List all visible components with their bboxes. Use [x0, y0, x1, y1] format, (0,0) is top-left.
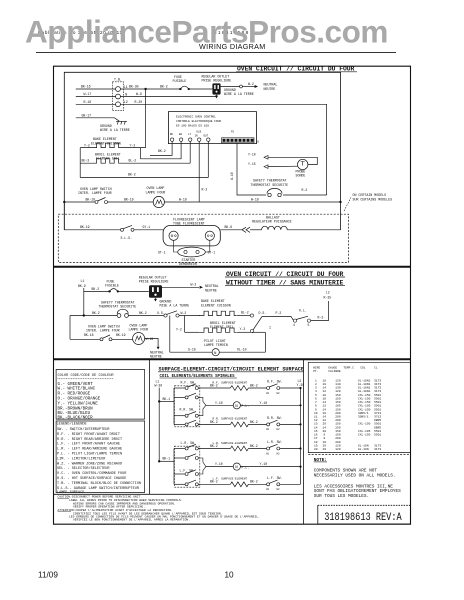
svg-text:TUBE FLUORESCENT: TUBE FLUORESCENT [173, 222, 205, 226]
svg-text:DLB: DLB [197, 131, 202, 134]
svg-text:ST-1: ST-1 [208, 250, 216, 254]
switch R.R. pole A [174, 412, 198, 418]
switch O.L. [293, 308, 311, 327]
wire W-2 neutral s2 [162, 282, 219, 292]
svg-text:W-2: W-2 [191, 282, 197, 286]
electronic oven control U1 [168, 112, 256, 144]
svg-text:L7: L7 [188, 133, 192, 136]
svg-text:BK-16: BK-16 [81, 85, 91, 89]
svg-text:BL-2: BL-2 [129, 159, 137, 163]
wire BK-2 mid [128, 311, 163, 316]
wire L1 down [83, 288, 85, 316]
svg-text:ELEMENT CUISSON: ELEMENT CUISSON [201, 303, 231, 307]
svg-text:R.- RED/ROUGE: R.- RED/ROUGE [58, 392, 91, 397]
switch R.F. pole A [174, 384, 198, 390]
thick divider section1/section2 [54, 266, 411, 268]
svg-text:NEUTRE: NEUTRE [150, 354, 162, 358]
svg-text:BK-2: BK-2 [250, 420, 258, 424]
svg-text:N: N [125, 92, 127, 96]
fluorescent lamp TUBE FLUORESCENT [163, 218, 220, 246]
svg-text:BA: BA [179, 133, 183, 136]
svg-text:W-19: W-19 [179, 197, 187, 201]
probe SONDE [296, 159, 308, 177]
node L2 surface [297, 379, 305, 387]
svg-text:OVEN CIRCUIT // CIRCUIT DU FOU: OVEN CIRCUIT // CIRCUIT DU FOUR [237, 66, 355, 73]
node L2 s2 [324, 290, 332, 299]
svg-text:L2: L2 [124, 100, 128, 104]
wire EOC pin2 jog [141, 141, 182, 159]
switch O.S. [157, 311, 186, 317]
svg-text:ELECTRONIC OVEN CONTROL: ELECTRONIC OVEN CONTROL [176, 116, 216, 119]
starter DEMARREUR [158, 247, 215, 266]
svg-text:LAMPE-SURFACE: LAMPE-SURFACE [57, 491, 84, 495]
svg-text:BK-2: BK-2 [250, 480, 258, 484]
svg-text:L.F. SURFACE-ELEMENT: L.F. SURFACE-ELEMENT [213, 478, 248, 481]
wire pilot row 2 [206, 462, 233, 467]
page border [54, 66, 411, 524]
svg-text:INTER. LAMPE FOUR: INTER. LAMPE FOUR [78, 191, 112, 195]
wire main row BK-2 [70, 311, 117, 316]
svg-text:Y-30: Y-30 [297, 383, 305, 387]
svg-text:W-2: W-2 [181, 311, 187, 315]
right column divider [303, 359, 305, 524]
R.F. surface element [213, 381, 267, 390]
oven lamp s2 label [129, 323, 149, 331]
svg-text:BK-19: BK-19 [124, 197, 134, 201]
svg-text:LAMPE TEMOIN: LAMPE TEMOIN [204, 343, 228, 347]
svg-text:R.R. - RIGHT REAR/ARRIERE DROI: R.R. - RIGHT REAR/ARRIERE DROIT [57, 437, 122, 442]
svg-text:INTER. LAMPE FOUR: INTER. LAMPE FOUR [86, 329, 120, 333]
regular outlet s2 [139, 276, 169, 298]
oven lamp switch INTER. LAMPE FOUR [78, 187, 112, 195]
wire P-2 [262, 311, 293, 320]
svg-text:181814121818141214181412201420: 18181412181814121418141220142088102010 [323, 379, 327, 451]
svg-text:Y-2: Y-2 [240, 327, 246, 331]
svg-text:R.F. SW.: R.F. SW. [181, 380, 196, 384]
wire R.F. element row [198, 383, 230, 388]
legend column divider [149, 359, 151, 494]
safety thermostat THERMOSTAT SECURITE [251, 179, 289, 197]
wire R-2 EOC pin4 down to lamp row [199, 141, 207, 202]
wire table header [313, 366, 378, 372]
svg-text:BK-2: BK-2 [139, 311, 147, 315]
svg-text:J1: J1 [256, 141, 260, 144]
svg-text:CALIBRE: CALIBRE [328, 370, 341, 373]
wire BK-1 bus to group 1 [159, 388, 174, 424]
wire R.R. element row [198, 420, 230, 425]
svg-text:BK-1: BK-1 [163, 457, 171, 461]
switch L.F. pole B [174, 480, 198, 486]
node junction right lamp row [339, 201, 341, 203]
section 1 box [64, 72, 340, 230]
svg-text:W.Z. - WARMER ZONE/ZONE RECHAU: W.Z. - WARMER ZONE/ZONE RECHAUD [57, 461, 122, 466]
svg-text:O.- ORANGE/ORANGE: O.- ORANGE/ORANGE [58, 397, 101, 402]
svg-text:Y-15: Y-15 [248, 162, 256, 166]
wire Y-15 probe arrow [248, 162, 298, 168]
svg-text:O.L.: O.L. [299, 308, 307, 312]
wire W-2 neutral arrow [221, 82, 258, 88]
svg-text:R-35: R-35 [324, 296, 332, 300]
wire pilot row 1 [206, 401, 233, 406]
svg-text:SEL. - SELECTOR/SELECTEUR: SEL. - SELECTOR/SELECTEUR [57, 466, 110, 471]
svg-text:Y-2: Y-2 [84, 143, 90, 147]
wire BK-30 from L1 [120, 85, 181, 89]
svg-text:PRISE REGULIERE: PRISE REGULIERE [139, 280, 169, 284]
wire table box [308, 362, 410, 452]
svg-text:L.R. - LEFT REAR/ARRIERE GAUCH: L.R. - LEFT REAR/ARRIERE GAUCHE [57, 447, 122, 452]
svg-text:BK-19: BK-19 [80, 225, 90, 229]
wire BK-2 to fuse s2 [84, 287, 111, 291]
wire lamp row s2 [70, 316, 100, 340]
wire W-9 from N [120, 92, 216, 96]
svg-text:SUR TOUS LES MODELES.: SUR TOUS LES MODELES. [314, 494, 369, 499]
wire L1 branch down to bake row [145, 89, 147, 148]
svg-text:Y-10: Y-10 [215, 462, 223, 466]
oven lamp LAMPE FOUR label [146, 186, 166, 194]
node junction on L1 wire [144, 88, 146, 90]
svg-text:H1: H1 [266, 392, 270, 395]
svg-text:P.L.: P.L. [242, 465, 250, 469]
svg-text:R.R. SW.: R.R. SW. [180, 408, 195, 412]
wire Y-2 left broil drop [176, 316, 185, 333]
svg-text:Y.- YELLOW/JAUNE: Y.- YELLOW/JAUNE [58, 401, 99, 406]
svg-text:R-20: R-20 [135, 100, 143, 104]
EOC pin labels [170, 131, 235, 138]
svg-text:LEGEND/LEGENDE: LEGEND/LEGENDE [57, 422, 87, 427]
color code box [56, 370, 145, 421]
svg-text:BK-2: BK-2 [158, 149, 166, 153]
wire BK-19 s2 [112, 333, 133, 339]
NOTE heading [314, 458, 327, 463]
svg-text:SONDE: SONDE [296, 173, 306, 177]
svg-text:BK-30: BK-30 [129, 85, 139, 89]
header rule [36, 52, 396, 54]
node junction L1 main row [83, 314, 85, 316]
svg-text:NEUTRAL: NEUTRAL [264, 83, 278, 87]
wire BK-6 [220, 225, 242, 230]
wire L.R. element row [198, 444, 230, 449]
svg-text:W-2: W-2 [248, 82, 254, 86]
svg-text:COL: COL [360, 366, 366, 369]
wire W-10 from J1 down [230, 143, 266, 195]
node bus tap 2 [158, 460, 160, 462]
svg-text:L.R. SURFACE-ELEMENT: L.R. SURFACE-ELEMENT [213, 442, 248, 445]
svg-text:H2: H2 [277, 392, 281, 395]
svg-text:D.S.: D.S. [259, 311, 267, 315]
svg-text:CONTROLE ELECTRONIQUE FOUR: CONTROLE ELECTRONIQUE FOUR [176, 120, 221, 123]
svg-text:L.R. SW.: L.R. SW. [181, 441, 196, 445]
wire W-19 down to neutral [145, 337, 164, 358]
svg-text:R.R. SW.: R.R. SW. [267, 416, 282, 420]
wire Y-10 probe arrow [248, 153, 317, 165]
svg-text:L.R. SW.: L.R. SW. [267, 440, 282, 444]
svg-text:H2: H2 [277, 452, 281, 455]
node junction left lamp row [63, 201, 65, 203]
svg-text:W-9: W-9 [136, 92, 142, 96]
fuse FUSIBLE s2 [105, 279, 119, 292]
switch S.L.S. [121, 225, 135, 240]
svg-text:W-10: W-10 [230, 172, 234, 180]
svg-text:WIRE A LA TERRE: WIRE A LA TERRE [224, 92, 254, 96]
svg-text:L.F. SW.: L.F. SW. [267, 476, 282, 480]
outlet ground arrow down [215, 95, 218, 99]
switch R.R. right pole [266, 416, 302, 431]
EOC terminal pins [170, 138, 210, 141]
note box dashed top [308, 454, 410, 456]
svg-text:P2: P2 [231, 131, 235, 134]
svg-text:BU-3: BU-3 [82, 159, 90, 163]
svg-text:REGULATEUR PUISSANCE: REGULATEUR PUISSANCE [252, 220, 292, 224]
wire EOC pin3 to broil [189, 141, 191, 163]
svg-text:IN: IN [195, 135, 199, 138]
svg-text:S-10: S-10 [188, 348, 196, 352]
svg-text:BR.-BROWN/BRUN: BR.-BROWN/BRUN [58, 406, 94, 411]
svg-text:O.C. - OVEN CONTROL/COMMANDE F: O.C. - OVEN CONTROL/COMMANDE FOUR [57, 471, 127, 476]
svg-text:H2: H2 [277, 428, 281, 431]
switch L.R. pole A [174, 444, 198, 450]
svg-text:OL-10: OL-10 [237, 348, 247, 352]
svg-text:BK-2: BK-2 [92, 287, 100, 291]
L.F. surface element [213, 478, 267, 487]
svg-text:ELEMENT GRIL: ELEMENT GRIL [210, 325, 234, 329]
switch L.R. pole B [174, 454, 198, 460]
switch group R.F./R.R. dashed box [174, 380, 199, 426]
svg-text:BK-18: BK-18 [84, 333, 94, 337]
svg-text:R-18: R-18 [84, 100, 92, 104]
svg-text:P-2: P-2 [276, 311, 282, 315]
svg-text:WIRING DIAGRAM: WIRING DIAGRAM [199, 42, 266, 51]
svg-text:W-19: W-19 [146, 337, 154, 341]
L.R. surface element [213, 442, 267, 451]
svg-text:R.F. SURFACE-ELEMENT: R.F. SURFACE-ELEMENT [213, 381, 248, 384]
note text english [314, 469, 396, 479]
switch R.F. pole B [174, 393, 198, 399]
svg-text:L1: L1 [124, 85, 128, 89]
left bus L1 wire [158, 388, 160, 462]
safety thermostat s2 [99, 300, 137, 308]
svg-text:Y-10: Y-10 [215, 401, 223, 405]
outlet ground label [224, 88, 254, 96]
wire BK-2 long row [80, 141, 208, 177]
wire R-3 to L2 [311, 301, 329, 321]
svg-text:R-3: R-3 [318, 316, 324, 320]
wire W-17 to N [76, 92, 116, 96]
svg-text:LAMPE FOUR: LAMPE FOUR [129, 328, 149, 332]
R.R. surface element [213, 418, 267, 427]
svg-text:L.F. SW.: L.F. SW. [180, 469, 195, 473]
oven lamp switch contacts [95, 198, 108, 204]
arrows to ballast [242, 227, 250, 232]
group 2 common rail [198, 458, 206, 474]
svg-text:R.F. - RIGHT FRONT/AVANT DROIT: R.F. - RIGHT FRONT/AVANT DROIT [57, 432, 120, 437]
oven lamp symbol [153, 196, 164, 207]
svg-text:ST-1: ST-1 [158, 250, 166, 254]
svg-text:5: 5 [308, 323, 310, 327]
svg-text:THERMOSTAT SECURITE: THERMOSTAT SECURITE [99, 305, 137, 309]
svg-text:BU.-BLUE/BLEU: BU.-BLUE/BLEU [58, 411, 91, 416]
svg-text:H.S. - HOT SURFACE/SURFACE CHA: H.S. - HOT SURFACE/SURFACE CHAUDE [57, 476, 126, 481]
thermostat contacts s2 [117, 309, 128, 317]
svg-text:T.B.: T.B. [114, 78, 122, 82]
fuse FUSE FUSIBLE [173, 75, 190, 90]
svg-text:BK-19: BK-19 [116, 333, 126, 337]
svg-text:GN-17: GN-17 [82, 113, 92, 117]
svg-text:W-17: W-17 [84, 92, 92, 96]
svg-text:BK-2: BK-2 [250, 444, 258, 448]
svg-text:P.L. - PILOT LIGHT/LAMPE TEMOI: P.L. - PILOT LIGHT/LAMPE TEMOIN [57, 452, 122, 457]
wire starter leads [174, 240, 178, 252]
svg-text:SUR CERTAINS MODELES: SUR CERTAINS MODELES [353, 197, 393, 201]
node L1 surface [155, 380, 163, 388]
wire oven lamp row [64, 197, 340, 202]
svg-text:PT.: PT. [313, 370, 319, 373]
legend key box [56, 421, 145, 495]
ground symbol [100, 121, 130, 132]
svg-text:GY-1: GY-1 [143, 225, 151, 229]
wire table column pt [314, 379, 381, 451]
svg-text:LIM. - LIMITOR/LIMITEUR: LIM. - LIMITOR/LIMITEUR [57, 456, 106, 461]
svg-text:SW. - SWITCH/INTERRUPTEUR: SW. - SWITCH/INTERRUPTEUR [57, 427, 110, 432]
thick divider section2/section3 [54, 358, 411, 360]
revision box 318198613 REV:A [318, 505, 411, 524]
svg-text:BK-2: BK-2 [128, 173, 136, 177]
section 3 title SURFACE-ELEMENT-CIRCUIT [158, 367, 304, 379]
svg-text:O.S.: O.S. [157, 311, 165, 315]
svg-text:BK.-BLACK/NOIR: BK.-BLACK/NOIR [58, 416, 94, 421]
broil element ELEMENT GRIL [80, 152, 190, 163]
switch R.R. pole B [174, 420, 198, 426]
ground arrow s2 [154, 298, 189, 308]
svg-text:BK-2: BK-2 [250, 383, 258, 387]
svg-text:BK-1: BK-1 [163, 397, 171, 401]
note text french [314, 484, 401, 499]
svg-text:R-2: R-2 [302, 188, 308, 192]
svg-text:ES 100 BA(ES ES 100: ES 100 BA(ES ES 100 [176, 123, 209, 127]
wire to bake s2 [179, 315, 200, 317]
svg-text:OUT: OUT [204, 135, 209, 138]
svg-text:ATTENTION:COUPEZ L'ALIMENTATIO: ATTENTION:COUPEZ L'ALIMENTATION AVANT D'… [58, 508, 173, 512]
svg-text:NEUTRE: NEUTRE [205, 288, 217, 292]
svg-text:G.- GREEN/VERT: G.- GREEN/VERT [58, 382, 94, 387]
svg-text:S.L.S.- GARAGE LAMP SWITCH/INT: S.L.S.- GARAGE LAMP SWITCH/INTERRUPTEUR [57, 486, 140, 491]
svg-text:11/09: 11/09 [38, 571, 58, 580]
svg-text:W-19: W-19 [251, 197, 259, 201]
svg-text:WIRE A LA TERRE: WIRE A LA TERRE [100, 128, 130, 132]
svg-text:Y-2: Y-2 [176, 327, 182, 331]
svg-text:NECESSARILY USED ON ALL MODELS: NECESSARILY USED ON ALL MODELS. [314, 474, 396, 479]
switch L.F. pole A [174, 470, 198, 476]
node bus tap 1 [158, 400, 160, 402]
svg-text:Y-10: Y-10 [260, 401, 268, 405]
connector J1 strip [222, 138, 260, 144]
svg-text:T.B. - TERMINAL BLOCK/BLOC DE: T.B. - TERMINAL BLOCK/BLOC DE CONNECTION [57, 481, 141, 486]
svg-text:10: 10 [225, 571, 235, 580]
svg-text:TEMP.C: TEMP.C [343, 366, 354, 369]
svg-text:NEUTRE: NEUTRE [264, 87, 276, 91]
dashed box certain models fluorescent [58, 214, 348, 262]
wire R-20 from L2 to right side [120, 100, 326, 195]
oven lamp symbol s2 [133, 333, 145, 345]
wire L.F. element row [198, 480, 230, 485]
svg-text:FUSIBLE: FUSIBLE [173, 79, 187, 83]
wire BK-1 bus to group 2 [159, 449, 174, 485]
pilot light LAMPE TEMOIN [170, 316, 266, 356]
svg-text:R.F. SW.: R.F. SW. [267, 380, 282, 384]
svg-text:Y-10: Y-10 [260, 462, 268, 466]
oven lamp switch s2 labels [86, 324, 120, 332]
wire fuse to outlet [189, 88, 213, 90]
broil element s2 [185, 321, 251, 332]
svg-text:BK-2: BK-2 [92, 311, 100, 315]
wire GY-1 [134, 225, 163, 230]
right bus L2 wire [300, 387, 302, 484]
terminal block T.B. [112, 78, 127, 111]
caution notes [58, 496, 261, 522]
svg-text:MISE A LA TERRE: MISE A LA TERRE [160, 304, 190, 308]
svg-text:LAMPE FOUR: LAMPE FOUR [146, 190, 166, 194]
svg-text:L.F. - LEFT FRONT/AVANT GAUCHE: L.F. - LEFT FRONT/AVANT GAUCHE [57, 442, 120, 447]
lamp switch contacts s2 [100, 335, 112, 341]
left rail wire [79, 148, 81, 178]
wire GN-17 ground wire [76, 113, 120, 121]
wire BK-19 fluorescent feed [64, 202, 120, 230]
svg-text:BK-9: BK-9 [78, 284, 86, 288]
switch L.F. right pole [266, 476, 301, 491]
node NEUTRAL NEUTRE [264, 83, 278, 91]
svg-text:H2: H2 [277, 488, 281, 491]
svg-text:BK-2: BK-2 [160, 85, 168, 89]
svg-text:P.L.: P.L. [242, 404, 250, 408]
wire bake to DS [236, 315, 250, 317]
svg-text:CL: CL [374, 366, 378, 369]
wire BK-16 to L1 [76, 85, 116, 89]
bake element s2 [199, 299, 249, 315]
pilot light P.L. 1 [233, 401, 301, 409]
svg-text:R.R. SURFACE-ELEMENT: R.R. SURFACE-ELEMENT [213, 418, 248, 421]
svg-text:VERIFIEZ LE BON FONCTIONNEMENT: VERIFIEZ LE BON FONCTIONNEMENT DE L'APPA… [73, 518, 190, 522]
switch L.R. right pole [266, 440, 302, 455]
switch group L.R./L.F. dashed box [174, 441, 199, 487]
svg-text:L2: L2 [326, 290, 330, 294]
group 1 common rail [198, 397, 206, 415]
pilot light P.L. 2 [233, 462, 301, 470]
svg-text:L1: L1 [81, 279, 85, 283]
svg-text:BK-6: BK-6 [225, 225, 233, 229]
node L1 [78, 279, 86, 288]
svg-text:S.L.S.: S.L.S. [121, 236, 133, 240]
svg-text:BL-2: BL-2 [241, 310, 249, 314]
regular outlet PRISE REGULIERE [202, 74, 232, 94]
svg-text:ON CERTAIN MODELS: ON CERTAIN MODELS [353, 193, 387, 197]
svg-text:BK: BK [170, 133, 174, 136]
svg-text:H1: H1 [266, 488, 270, 491]
on certain models note [344, 193, 392, 211]
svg-text:FUSIBLE: FUSIBLE [105, 283, 119, 287]
svg-text:1: 1 [269, 325, 271, 329]
svg-text:H1: H1 [266, 428, 270, 431]
bake element ELEMENT CUISSON [80, 137, 145, 147]
notes top border [54, 493, 304, 495]
svg-text:W.- WHITE/BLANC: W.- WHITE/BLANC [58, 387, 96, 392]
svg-text:DEMARREUR: DEMARREUR [179, 262, 197, 266]
svg-text:120140130120150150150105150200: 1201401301201501501501051502002002001502… [335, 379, 341, 451]
svg-text:THERMOSTAT SECURITE: THERMOSTAT SECURITE [251, 183, 289, 187]
svg-text:PRISE REGULIERE: PRISE REGULIERE [202, 78, 232, 82]
wire R-2 thermostat to R-20 [283, 188, 327, 195]
svg-text:318198613 REV:A: 318198613 REV:A [324, 512, 402, 524]
svg-text:Y-2: Y-2 [130, 143, 136, 147]
svg-text:Y-10: Y-10 [248, 153, 256, 157]
